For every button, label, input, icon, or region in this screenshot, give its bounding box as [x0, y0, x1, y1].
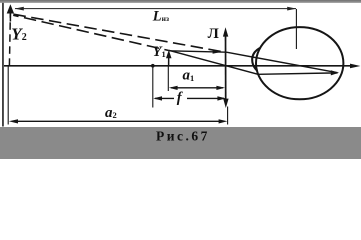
top grey scan bar [0, 0, 361, 2]
focal point dot F [151, 64, 155, 68]
extension line at Y2 base [7, 66, 9, 125]
dimension line Lнз (image to eye) [15, 8, 296, 10]
Y2 arrowhead [7, 4, 14, 13]
dashed ray lower (back-extension of central ray to Y2 tip) [13, 15, 169, 50]
extension line under focal point [152, 66, 154, 108]
lens Л (double-headed arrow) [225, 33, 227, 102]
extension line under lens [227, 107, 229, 125]
eye position reference line [295, 9, 297, 49]
central ray inside eye to retina [258, 73, 338, 74]
ray from Y1 parallel to axis toward lens [169, 51, 227, 52]
axis arrowhead right [350, 64, 360, 69]
cornea bump [252, 48, 260, 71]
dashed ray upper (back-extension of refracted ray to Y2 tip) [14, 14, 227, 52]
direction arrowhead on parallel ray [213, 50, 222, 54]
refracted ray from lens to retina [227, 52, 338, 72]
svg-text:Л: Л [208, 26, 219, 42]
virtual image arrow Y2 (dashed shaft) [9, 13, 10, 66]
central ray Y1 tip through lens centre [169, 50, 258, 74]
svg-text:Рис.67: Рис.67 [156, 128, 210, 143]
bottom grey caption bar [0, 127, 361, 159]
left scan border [2, 3, 4, 127]
extension line under Y1 [167, 66, 169, 91]
retina convergence arrowhead [331, 70, 339, 75]
optical axis [4, 65, 353, 67]
object arrow Y1 [168, 57, 170, 66]
dimension a1 (object to lens) [171, 87, 223, 89]
dimension f (focus to lens) [155, 97, 174, 99]
dimension a2 (virtual image to lens) [12, 120, 221, 122]
eye globe [256, 27, 343, 99]
